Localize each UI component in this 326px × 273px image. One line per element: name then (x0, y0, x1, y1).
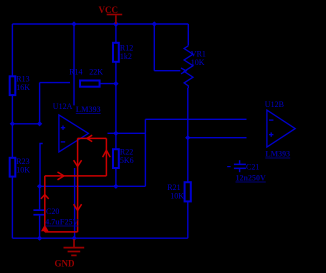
wire bottom rail (12, 237, 187, 239)
wire VR1 bottom lead (187, 88, 189, 182)
wire red right edge (105, 138, 107, 176)
wire R14 right lead (100, 83, 116, 85)
svg-text:U12B: U12B (265, 100, 284, 109)
power VCC symbol (107, 15, 123, 25)
wire red bottom horizontal (45, 231, 78, 233)
resistor R22 (113, 149, 119, 168)
wire C20 top lead (39, 186, 41, 209)
node divider left (10, 121, 15, 126)
svg-text:10K: 10K (170, 192, 184, 201)
wire C21 top stub (239, 160, 241, 163)
wire horizontal y82 to R14 (40, 82, 70, 84)
wire U12B inverting input (145, 118, 246, 120)
svg-text:10K: 10K (191, 58, 205, 67)
node rail-x74 (71, 21, 76, 26)
wire VR1 top lead (187, 24, 189, 46)
wire U12A output horizontal (108, 132, 146, 134)
wire top VCC rail (12, 23, 188, 25)
resistor R23 (10, 158, 16, 177)
wire long lower horizontal (40, 185, 146, 187)
node C20 top (37, 184, 42, 189)
arrow left at op-amp output (87, 135, 92, 141)
wire red lower left vertical (44, 176, 46, 232)
arrow up on lower left vertical (41, 195, 49, 199)
wire red output top (78, 137, 107, 139)
wire R12 top lead (115, 24, 117, 43)
wire left edge middle (11, 95, 13, 158)
svg-text:16K: 16K (16, 83, 30, 92)
wire C20 bottom lead (39, 216, 41, 239)
svg-text:12n250V: 12n250V (236, 174, 266, 183)
svg-text:1k2: 1k2 (120, 52, 132, 61)
svg-text:C20: C20 (46, 207, 59, 216)
wire U12B non-inverting input (188, 137, 247, 139)
wire divider tap horizontal (12, 123, 39, 125)
wire ground vertical x74 (74, 168, 76, 238)
arrow down on left vertical lower (74, 204, 82, 210)
wire R12 bottom to node to R22 top (115, 62, 117, 149)
wire R21 bottom lead (187, 201, 189, 238)
ground symbol (64, 239, 85, 255)
resistor R13 (10, 76, 16, 95)
svg-text:VCC: VCC (99, 5, 119, 15)
arrow up on right edge (103, 150, 111, 157)
wire wiper vertical x154 (153, 24, 155, 71)
wire wiper horizontal (154, 70, 180, 72)
wire vertical x74 from rail (73, 24, 75, 105)
node R22 bottom (113, 184, 118, 189)
wire red middle horizontal (45, 175, 107, 177)
wire C21 bottom stub (239, 169, 241, 172)
wire left edge lower (11, 177, 13, 239)
wire vertical x39 feedback (39, 83, 41, 124)
node rail-VCC (113, 21, 119, 27)
wire red left long vertical (77, 138, 79, 232)
wire vertical x145 (144, 119, 146, 186)
svg-text:GND: GND (55, 258, 76, 268)
node C20 bottom rail (37, 236, 42, 241)
resistor R21 (185, 182, 191, 201)
arrow down on left vertical upper (74, 160, 82, 166)
svg-text:LM393: LM393 (76, 105, 101, 114)
svg-text:LM393: LM393 (265, 150, 290, 159)
op-amp U12B (267, 110, 295, 147)
resistor R12 (113, 43, 119, 62)
node VR1-U12B input (185, 135, 190, 140)
capacitor C20 (33, 209, 45, 215)
svg-text:10K: 10K (16, 165, 30, 174)
resistor R14 (80, 81, 100, 87)
svg-text:R14: R14 (69, 68, 82, 77)
arrow right on middle horizontal (58, 172, 64, 180)
node ground rail (72, 236, 77, 241)
wire R22 bottom lead (115, 168, 117, 186)
capacitor C21 (227, 164, 246, 170)
node U12A output (113, 131, 118, 136)
node divider right (37, 121, 42, 126)
arrow filled up near bottom (41, 225, 49, 232)
svg-text:C21: C21 (246, 163, 259, 172)
op-amp U12A (59, 115, 89, 152)
wire left edge upper (11, 24, 13, 76)
svg-text:22K: 22K (89, 68, 103, 77)
node R12-R14 (113, 81, 118, 86)
svg-text:4.7uF25V: 4.7uF25V (45, 218, 78, 227)
node rail-wiper (152, 21, 157, 26)
potentiometer VR1 (181, 46, 193, 88)
svg-text:U12A: U12A (53, 102, 73, 111)
svg-text:5K6: 5K6 (120, 156, 134, 165)
wire U12A inverting stub (40, 144, 43, 187)
